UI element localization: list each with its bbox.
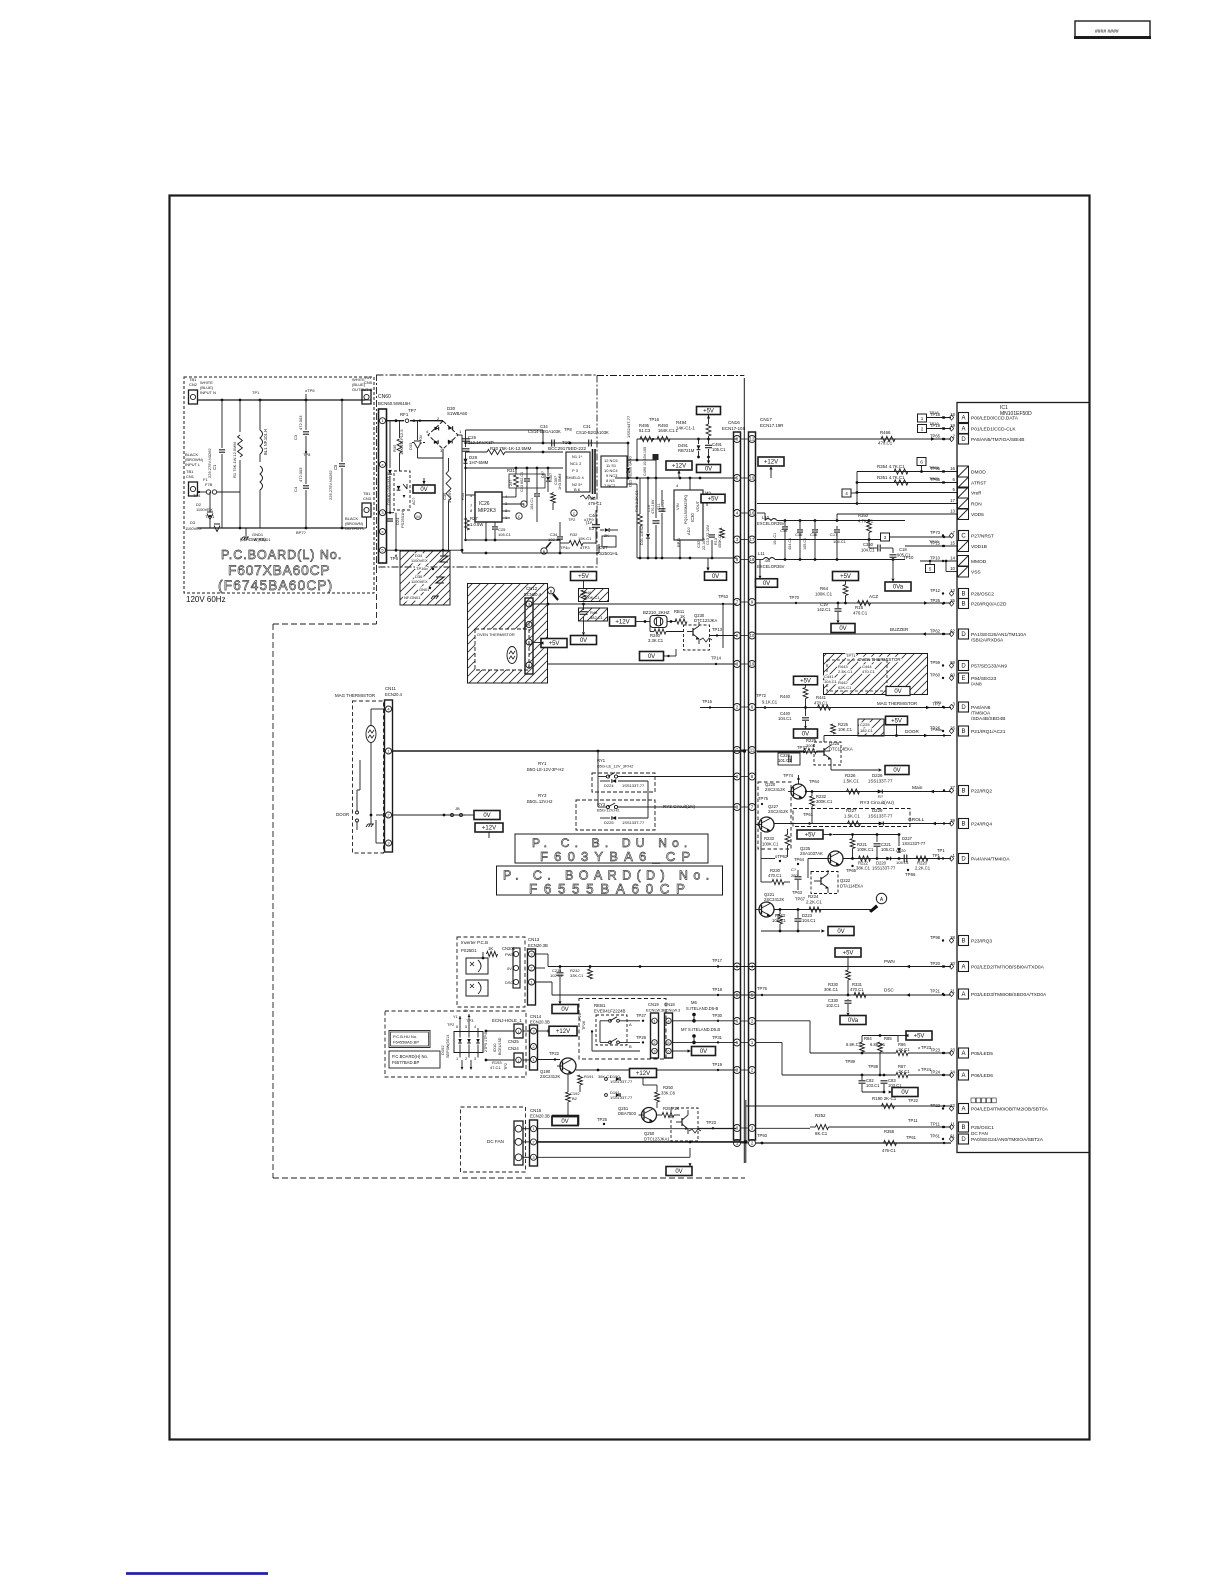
svg-text:VOUT: VOUT bbox=[695, 500, 700, 512]
diode D05 K1 1SS133T-77 bbox=[388, 470, 392, 474]
svg-text:CN19: CN19 bbox=[648, 1002, 659, 1007]
boxed number 5 link bbox=[926, 565, 935, 573]
svg-text:2SC2412K: 2SC2412K bbox=[768, 809, 788, 814]
svg-text:2.2K.C1: 2.2K.C1 bbox=[915, 866, 931, 871]
svg-text:G: G bbox=[735, 748, 738, 753]
svg-text:TP13: TP13 bbox=[712, 627, 723, 632]
0V box below C231 bbox=[552, 1005, 578, 1014]
svg-text:PA5/AN5/TM7IOA/SBI4B: PA5/AN5/TM7IOA/SBI4B bbox=[971, 437, 1025, 443]
REB1 switch box bbox=[596, 1015, 627, 1045]
svg-text:E: E bbox=[961, 676, 965, 682]
cap C36 smoothing bbox=[465, 443, 467, 447]
svg-text:RY3 Circuit(AU): RY3 Circuit(AU) bbox=[860, 800, 894, 806]
svg-text:1SS133T-77: 1SS133T-77 bbox=[872, 866, 896, 871]
svg-text:TP18: TP18 bbox=[929, 410, 939, 415]
svg-text:/TM6IOA: /TM6IOA bbox=[971, 711, 991, 717]
svg-text:14: 14 bbox=[950, 556, 955, 561]
svg-text:1: 1 bbox=[456, 1057, 458, 1061]
svg-text:0V: 0V bbox=[763, 581, 770, 587]
capacitor C5 225.275V.N0262 bbox=[341, 400, 343, 462]
svg-text:B: B bbox=[961, 1125, 965, 1131]
svg-text:L11: L11 bbox=[758, 551, 765, 556]
CN24 connector small bbox=[514, 1053, 523, 1067]
svg-text:P03/LED3/TM8IOB/SBO0A/TXD0A: P03/LED3/TM8IOB/SBO0A/TXD0A bbox=[971, 992, 1047, 998]
svg-text:C3: C3 bbox=[293, 434, 298, 440]
svg-text:TP2: TP2 bbox=[568, 517, 576, 522]
svg-text:100K.C1: 100K.C1 bbox=[815, 592, 833, 597]
svg-text:TP11: TP11 bbox=[908, 1118, 918, 1123]
svg-text:CN18: CN18 bbox=[664, 1002, 675, 1007]
svg-text:CN25: CN25 bbox=[508, 1039, 519, 1044]
IC1 MN101EF50D microcomputer box bbox=[957, 403, 1090, 1153]
svg-text:TP67: TP67 bbox=[795, 897, 806, 902]
svg-text:TP31: TP31 bbox=[712, 1035, 723, 1040]
svg-text:+5V: +5V bbox=[708, 497, 719, 503]
svg-text:S.ITELAND.D5.B: S.ITELAND.D5.B bbox=[688, 1027, 720, 1032]
svg-text:5: 5 bbox=[929, 567, 932, 572]
svg-text:P04/LED4/TM0IOB/TM2IOB/SBT0A: P04/LED4/TM0IOB/TM2IOB/SBT0A bbox=[971, 1107, 1049, 1113]
row 1128 right side R252 to pin 11 bbox=[756, 1127, 811, 1129]
C34 102-C1 cap bbox=[557, 536, 563, 538]
svg-text:D: D bbox=[961, 632, 966, 638]
circled B link top bbox=[548, 587, 555, 594]
svg-text:0Va: 0Va bbox=[893, 585, 904, 591]
svg-text:BZ210_2KHZ: BZ210_2KHZ bbox=[643, 610, 670, 615]
svg-text:CN11: CN11 bbox=[385, 686, 396, 691]
row 1042.4 to bus bbox=[673, 1041, 737, 1043]
TP14 row 664 bbox=[548, 663, 737, 665]
REB1 common wire bbox=[599, 1021, 601, 1043]
svg-text:8K.C1: 8K.C1 bbox=[815, 1131, 828, 1136]
svg-text:470.C1: 470.C1 bbox=[768, 873, 782, 878]
svg-text:C16: C16 bbox=[810, 532, 818, 537]
svg-text:TP30: TP30 bbox=[712, 1013, 723, 1018]
svg-text:P94/SEG23: P94/SEG23 bbox=[971, 676, 997, 682]
motor symbol circled M bbox=[415, 513, 422, 520]
IC1 pin 61 PA0/SEG24/AN0/TM0IOA/SBT2A bbox=[959, 1134, 969, 1144]
svg-text:C4: C4 bbox=[293, 486, 298, 492]
svg-text:TP3: TP3 bbox=[466, 1018, 474, 1023]
secondary wires from T10 bbox=[627, 459, 656, 461]
svg-text:1.0.5W: 1.0.5W bbox=[470, 522, 483, 527]
svg-text:B: B bbox=[550, 590, 553, 594]
svg-text:TP22: TP22 bbox=[908, 1098, 919, 1103]
svg-text:TP73: TP73 bbox=[930, 530, 941, 535]
svg-text:225.275V.N0262: 225.275V.N0262 bbox=[328, 470, 333, 500]
svg-text:101.C1: 101.C1 bbox=[778, 758, 792, 763]
svg-text:10K.C1: 10K.C1 bbox=[838, 727, 853, 732]
svg-text:0V: 0V bbox=[700, 1049, 707, 1055]
svg-text:ATRST: ATRST bbox=[971, 481, 986, 487]
svg-text:OUTPUT N: OUTPUT N bbox=[352, 387, 372, 392]
svg-text:2SC2412K: 2SC2412K bbox=[765, 787, 785, 792]
IC1 pin 60 P94/SEG23 bbox=[959, 673, 969, 683]
svg-text:Y1: Y1 bbox=[453, 1015, 458, 1019]
ladder top rail bbox=[862, 1035, 898, 1037]
ACZ row 603 wire bbox=[756, 602, 952, 604]
svg-text:P22/IRQ2: P22/IRQ2 bbox=[971, 789, 992, 795]
board D dash-dot top boundary extension bbox=[597, 375, 744, 377]
bridge output wires bbox=[442, 449, 444, 550]
svg-text:N1 1*: N1 1* bbox=[572, 454, 582, 459]
svg-text:C5: C5 bbox=[333, 464, 338, 470]
svg-text:105.C1: 105.C1 bbox=[881, 847, 895, 852]
svg-text:OVEN THERMISTOR: OVEN THERMISTOR bbox=[858, 657, 901, 662]
wires CN60 lower pins bbox=[387, 512, 395, 514]
svg-text:17: 17 bbox=[950, 498, 955, 503]
svg-text:C225: C225 bbox=[860, 722, 870, 727]
RON row long wire bbox=[757, 503, 957, 505]
svg-text:TP23: TP23 bbox=[930, 1048, 941, 1053]
0V box below buzzer bbox=[640, 652, 664, 661]
svg-text:164K.C1.1: 164K.C1.1 bbox=[658, 428, 678, 433]
svg-text:+5V: +5V bbox=[805, 833, 816, 839]
0V box above CN15 bbox=[552, 1117, 578, 1126]
oven thermistor right inner dashed box bbox=[827, 660, 887, 691]
resistor R221 100K.C1 bbox=[850, 839, 855, 849]
wire input N to filter bbox=[198, 399, 307, 401]
svg-text:x: x bbox=[382, 529, 384, 534]
IC1 pin 59 P57/SEG33/AN9 bbox=[959, 661, 969, 671]
svg-text:D33: D33 bbox=[408, 442, 413, 450]
IC1 pin 7 P27/NRST bbox=[959, 531, 969, 541]
0V box below C19 bbox=[831, 624, 855, 633]
oven thermistor hatched box right bbox=[824, 654, 928, 695]
svg-text:P26/OSC2: P26/OSC2 bbox=[971, 592, 994, 598]
svg-text:TP89: TP89 bbox=[845, 1059, 856, 1064]
row 1143 right side to pin 61 bbox=[756, 1142, 952, 1144]
svg-text:R494: R494 bbox=[676, 420, 687, 425]
svg-text:100K.C1: 100K.C1 bbox=[762, 842, 779, 847]
row 1021 to bus bbox=[673, 1020, 737, 1022]
GROLL row 823.5 bbox=[774, 823, 951, 825]
wire row 776.5 to bus bbox=[640, 776, 737, 778]
svg-text:D226: D226 bbox=[872, 773, 883, 778]
svg-text:ECN20.3B: ECN20.3B bbox=[530, 1020, 550, 1025]
svg-text:TP1: TP1 bbox=[252, 390, 260, 395]
boxed number 3 link bbox=[881, 533, 890, 541]
svg-text:DOOR: DOOR bbox=[905, 729, 919, 734]
svg-text:33K.C6: 33K.C6 bbox=[661, 1091, 676, 1096]
IC26 MIP2K3 switching regulator bbox=[475, 492, 502, 522]
row 1070 TP19 to bus bbox=[576, 1069, 737, 1071]
relay RY3 contact symbols bbox=[606, 805, 609, 808]
svg-text:62K.C1: 62K.C1 bbox=[838, 685, 852, 690]
svg-text:1H7-5MM: 1H7-5MM bbox=[469, 460, 489, 465]
svg-text:182.C1: 182.C1 bbox=[860, 728, 874, 733]
svg-text:PA1/SEG25/AN1/TM110A: PA1/SEG25/AN1/TM110A bbox=[971, 632, 1027, 638]
svg-text:P.C.BOARD(L) No.: P.C.BOARD(L) No. bbox=[221, 548, 342, 562]
svg-text:+5V: +5V bbox=[914, 1034, 925, 1040]
TP15 stub row 707 bbox=[700, 707, 734, 709]
svg-text:Vreff: Vreff bbox=[971, 491, 982, 497]
wire row 751 main bbox=[388, 751, 390, 755]
svg-text:M7: M7 bbox=[681, 1027, 687, 1032]
svg-text:TP71: TP71 bbox=[846, 653, 856, 658]
svg-text:TP66: TP66 bbox=[905, 872, 916, 877]
svg-text:17: 17 bbox=[750, 537, 755, 542]
zener D33 270V bbox=[417, 421, 419, 440]
svg-text:104.C1: 104.C1 bbox=[773, 533, 777, 545]
svg-text:1SS244T-77: 1SS244T-77 bbox=[626, 415, 631, 438]
bottom PSU rail segment bbox=[443, 549, 462, 551]
svg-text:+5V: +5V bbox=[840, 574, 851, 580]
svg-text:P57/SEG33/AN9: P57/SEG33/AN9 bbox=[971, 664, 1007, 670]
svg-text:P27/NRST: P27/NRST bbox=[971, 534, 994, 540]
svg-text:oTP3: oTP3 bbox=[580, 545, 590, 550]
svg-text:A: A bbox=[961, 965, 965, 971]
svg-text:TB1: TB1 bbox=[186, 469, 194, 474]
0V box below Q226 bbox=[885, 766, 909, 775]
net above Q225 bbox=[833, 834, 899, 836]
svg-text:MAG THERMISTOR: MAG THERMISTOR bbox=[877, 701, 917, 706]
resistor R1 75K.1W.12.5MM bbox=[239, 400, 241, 432]
ground GND1 NF_GND1 bbox=[245, 528, 247, 536]
wire rail y443 with caps bbox=[466, 442, 629, 444]
svg-text:1100VEX: 1100VEX bbox=[411, 558, 428, 563]
+12V box buzzer bbox=[610, 617, 636, 626]
svg-text:P05/LED5: P05/LED5 bbox=[971, 1051, 993, 1057]
svg-text:TP61: TP61 bbox=[906, 1135, 917, 1140]
svg-text:1SS133T-77: 1SS133T-77 bbox=[610, 1079, 633, 1084]
wire CN11 pin3 stub bbox=[376, 842, 385, 844]
svg-text:15K.1W.P12.5: 15K.1W.P12.5 bbox=[399, 429, 404, 455]
svg-text:TP26a: TP26a bbox=[930, 727, 943, 732]
svg-text:B: B bbox=[961, 789, 965, 795]
svg-text:CN24: CN24 bbox=[508, 1046, 519, 1051]
svg-text:2.2K.C1: 2.2K.C1 bbox=[806, 900, 822, 905]
svg-text:JB: JB bbox=[455, 806, 460, 811]
fan connector plain bar bbox=[514, 1121, 523, 1165]
door to +12V link arrow bbox=[488, 832, 490, 838]
svg-text:19: 19 bbox=[750, 476, 755, 481]
svg-text:TP18: TP18 bbox=[712, 987, 723, 992]
svg-text:ECNJ-HOLE_1: ECNJ-HOLE_1 bbox=[492, 1018, 522, 1023]
svg-text:TP76: TP76 bbox=[757, 986, 768, 991]
Main row 791 bbox=[806, 791, 951, 793]
svg-text:D3: D3 bbox=[190, 520, 196, 525]
svg-text:REB1: REB1 bbox=[594, 1003, 606, 1008]
svg-text:D: D bbox=[961, 664, 966, 670]
+5V box above door row bbox=[886, 716, 908, 725]
fan row 1128.7 bbox=[538, 1128, 737, 1130]
black box component M8 bbox=[653, 454, 659, 460]
right jog rows 1021/1042 to LED pins bbox=[756, 1020, 811, 1022]
svg-text:TP64: TP64 bbox=[809, 779, 820, 784]
svg-text:TP4o: TP4o bbox=[560, 545, 570, 550]
circled C TP2 TP9 bbox=[571, 510, 577, 516]
svg-text:TP2: TP2 bbox=[504, 1063, 508, 1070]
wire to 1SS244T diode column bbox=[627, 443, 629, 464]
svg-text:/SDA4B/SBO4B: /SDA4B/SBO4B bbox=[971, 716, 1005, 722]
resistor R20 75K-1K-12.5MM bbox=[466, 451, 488, 453]
svg-text:6: 6 bbox=[456, 1025, 458, 1029]
svg-text:C31: C31 bbox=[583, 424, 591, 429]
svg-text:CN3: CN3 bbox=[363, 496, 372, 501]
svg-text:IC26: IC26 bbox=[479, 501, 490, 507]
svg-text:A: A bbox=[629, 1022, 632, 1027]
svg-text:T10: T10 bbox=[562, 440, 570, 445]
svg-text:7 NC2: 7 NC2 bbox=[604, 483, 616, 488]
svg-text:15K.C1: 15K.C1 bbox=[578, 536, 592, 541]
svg-text:TP17: TP17 bbox=[712, 958, 723, 963]
svg-text:oTP62: oTP62 bbox=[775, 854, 788, 859]
svg-text:142.C1: 142.C1 bbox=[817, 607, 831, 612]
long vertical wire x723 left of bus bbox=[722, 610, 724, 648]
svg-text:4: 4 bbox=[845, 491, 848, 496]
svg-text:OVEN THERMISTOR: OVEN THERMISTOR bbox=[477, 632, 515, 637]
svg-text:C33 602.C1: C33 602.C1 bbox=[520, 472, 524, 492]
svg-text:TP19: TP19 bbox=[712, 1062, 723, 1067]
+5V box top bbox=[697, 407, 721, 415]
svg-text:TP27: TP27 bbox=[636, 1013, 647, 1018]
svg-text:R440: R440 bbox=[780, 694, 791, 699]
svg-text:R351 4.7K.C1: R351 4.7K.C1 bbox=[877, 475, 905, 480]
P.C.B.HU number label box bbox=[389, 1031, 430, 1048]
svg-text:TP15: TP15 bbox=[929, 539, 939, 544]
svg-text:4.7K.C1: 4.7K.C1 bbox=[858, 519, 874, 524]
svg-text:PWN: PWN bbox=[884, 959, 895, 964]
svg-text:TP22: TP22 bbox=[930, 1103, 941, 1108]
svg-text:C32: C32 bbox=[696, 540, 701, 548]
svg-text:11: 11 bbox=[750, 748, 755, 753]
svg-text:C350: C350 bbox=[863, 542, 874, 547]
svg-text:0V: 0V bbox=[648, 654, 655, 660]
svg-text:PQ1L503M2SPQ: PQ1L503M2SPQ bbox=[684, 495, 688, 524]
transistor sub circle C bbox=[516, 513, 522, 519]
svg-text:+12V: +12V bbox=[636, 1071, 650, 1077]
svg-text:D31 11ES2: D31 11ES2 bbox=[640, 526, 644, 545]
svg-text:F607XBA60CP: F607XBA60CP bbox=[228, 563, 330, 578]
svg-text:IC30: IC30 bbox=[690, 512, 695, 522]
svg-text:A: A bbox=[961, 427, 965, 433]
top rail wire to transformer bbox=[436, 420, 443, 422]
wire CN24 row 1060 bbox=[523, 1059, 530, 1061]
svg-text:470.C1: 470.C1 bbox=[862, 669, 876, 674]
wire top-right to output bbox=[305, 394, 307, 400]
svg-text:P 3: P 3 bbox=[572, 468, 579, 473]
svg-text:CS10-B2GA103K: CS10-B2GA103K bbox=[576, 430, 609, 435]
capacitor C34 102-C1 in PSU bbox=[387, 518, 393, 520]
svg-text:0V: 0V bbox=[561, 1119, 568, 1125]
wire CN25 to CN14 row bbox=[523, 1030, 530, 1032]
vertical from Q225 base bbox=[808, 858, 828, 860]
svg-text:DMOD: DMOD bbox=[971, 470, 986, 476]
thermistor symbol MAG bbox=[366, 726, 376, 743]
+5V box LED ladder bbox=[906, 1031, 932, 1040]
svg-text:C: C bbox=[573, 512, 576, 516]
svg-text:R358: R358 bbox=[884, 1129, 895, 1134]
svg-text:1100VEX: 1100VEX bbox=[411, 579, 428, 584]
svg-text:R85: R85 bbox=[884, 1036, 892, 1041]
svg-text:1: 1 bbox=[921, 416, 924, 421]
svg-text:R1 75K.1W.12.5MM: R1 75K.1W.12.5MM bbox=[232, 442, 237, 478]
wire from CN60 pin1 down left column bbox=[389, 421, 391, 468]
MAG THERMISTOR row 707 bbox=[756, 707, 952, 709]
svg-text:B5G-LE-12V-3P-H2: B5G-LE-12V-3P-H2 bbox=[527, 767, 564, 772]
IC1 pin 24 P06/LED6 bbox=[959, 1070, 969, 1080]
svg-text:P21/IRQ1/AC21: P21/IRQ1/AC21 bbox=[971, 729, 1006, 735]
svg-text:P. C. B. DU No.: P. C. B. DU No. bbox=[532, 836, 692, 850]
NF-GN01 hatched filter box bbox=[400, 551, 450, 605]
svg-text:2SC2412K: 2SC2412K bbox=[764, 897, 784, 902]
svg-text:TP98: TP98 bbox=[930, 935, 941, 940]
svg-text:M: M bbox=[416, 514, 419, 519]
wire row 439 R495 R493 bbox=[637, 438, 737, 440]
svg-text:1K: 1K bbox=[488, 946, 493, 951]
capacitor C221 105.C1 bbox=[874, 843, 881, 845]
svg-text:RY1: RY1 bbox=[538, 761, 547, 766]
svg-text:ECN20.4: ECN20.4 bbox=[385, 692, 403, 697]
svg-text:TP93: TP93 bbox=[757, 1133, 768, 1138]
svg-text:2SC2412K: 2SC2412K bbox=[540, 1074, 560, 1079]
capacitor C491 105.C1 bbox=[705, 444, 712, 446]
svg-text:PS2501HL: PS2501HL bbox=[596, 551, 619, 556]
inverter PCB dashed box bbox=[457, 937, 525, 1007]
svg-text:/SBI2A/RXD6A: /SBI2A/RXD6A bbox=[971, 638, 1004, 644]
svg-text:+5V: +5V bbox=[843, 951, 854, 957]
svg-text:ECNLW.3: ECNLW.3 bbox=[646, 1008, 664, 1013]
svg-text:TP62: TP62 bbox=[930, 629, 941, 634]
svg-text:CN12: CN12 bbox=[526, 586, 538, 591]
svg-text:104.C1: 104.C1 bbox=[824, 679, 838, 684]
wire CN14-3 to +12V bbox=[538, 1030, 549, 1032]
svg-text:F6455BAD.BP: F6455BAD.BP bbox=[393, 1040, 419, 1045]
long vertical wire between bus columns bbox=[743, 378, 745, 1163]
PA4 row 858.5 bbox=[843, 858, 951, 860]
bottom rail y558 PSU right bbox=[637, 557, 737, 559]
svg-text:D: D bbox=[523, 503, 526, 507]
svg-text:15: 15 bbox=[950, 541, 955, 546]
svg-text:DOOR: DOOR bbox=[336, 812, 349, 817]
svg-text:ECN20.4: ECN20.4 bbox=[524, 592, 542, 597]
bus pin circles bbox=[734, 436, 741, 443]
svg-text:P06/LED6: P06/LED6 bbox=[971, 1073, 993, 1079]
svg-text:TP26: TP26 bbox=[582, 1021, 586, 1030]
BUZZER row 634 bbox=[756, 633, 952, 635]
power supply dash-dot boundary bbox=[377, 375, 598, 567]
svg-text:MIP2K3: MIP2K3 bbox=[478, 508, 496, 514]
connector CN5 TB1 (output N) bbox=[362, 390, 371, 404]
svg-text:TP59: TP59 bbox=[930, 660, 941, 665]
0Va box below C18 bbox=[885, 582, 911, 591]
svg-text:2Y: 2Y bbox=[464, 1009, 469, 1013]
svg-text:1K: 1K bbox=[680, 614, 685, 619]
P.C.BOARD(D) number box bbox=[497, 866, 723, 895]
svg-text:TP28: TP28 bbox=[636, 1035, 647, 1040]
svg-text:DTC123JKA1: DTC123JKA1 bbox=[644, 1137, 670, 1142]
svg-text:BCEU15D: BCEU15D bbox=[498, 1037, 502, 1055]
svg-text:F6555BA60CP: F6555BA60CP bbox=[529, 882, 692, 897]
IC1 pin 10 VSS bbox=[958, 566, 969, 577]
bottom rail of PSU bbox=[466, 539, 561, 541]
resistor R35 15K.1W.P12.5 bbox=[399, 421, 401, 438]
svg-text:BCC29175ED-222: BCC29175ED-222 bbox=[548, 446, 586, 451]
svg-text:R31: R31 bbox=[507, 468, 515, 473]
svg-text:TP53: TP53 bbox=[718, 594, 729, 599]
svg-text:TP11: TP11 bbox=[930, 1122, 940, 1127]
wire DSC row 982-995 bbox=[536, 981, 553, 983]
+5V box above R46 bbox=[571, 572, 597, 581]
svg-text:470.C1: 470.C1 bbox=[853, 611, 868, 616]
svg-text:CN5: CN5 bbox=[364, 380, 373, 385]
svg-text:120V 60Hz: 120V 60Hz bbox=[186, 595, 226, 604]
+5V box right of IC30 bbox=[701, 494, 725, 503]
left vertical wire from CN11-1 bbox=[359, 760, 361, 790]
wire door drop from 815 to 0V +12V boxes bbox=[474, 811, 500, 820]
IC1 pin 22 P04/LED4/TM0IOB/TM2IOB/SBT0A bbox=[959, 1104, 969, 1114]
circle D symbol bbox=[521, 501, 527, 507]
